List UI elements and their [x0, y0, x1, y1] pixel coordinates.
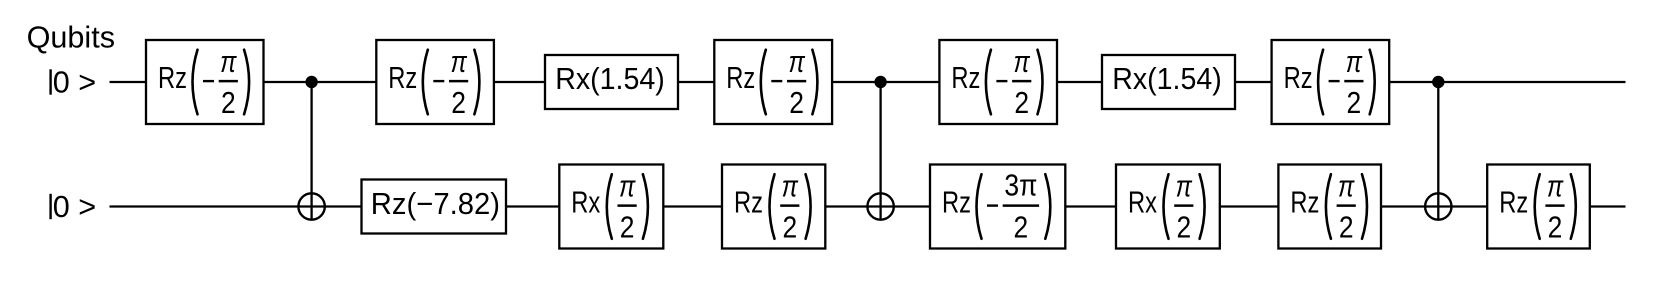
svg-text:π: π [1014, 45, 1031, 79]
svg-text:π: π [788, 45, 805, 79]
gate U4 Rz(-pi/2) [714, 40, 832, 124]
svg-text:Rz: Rz [951, 61, 980, 95]
open paren [761, 50, 766, 115]
open paren [193, 50, 198, 115]
minus sign [433, 80, 444, 82]
svg-text:Rx: Rx [1128, 186, 1157, 220]
open paren [1535, 174, 1540, 239]
fraction bar [1545, 204, 1564, 207]
open paren [986, 50, 991, 115]
gate V4 Rz(-3pi/2) [930, 165, 1065, 249]
close paren [1038, 50, 1043, 115]
gate U2 Rz(-pi/2) [376, 40, 494, 124]
fraction bar [1337, 204, 1356, 207]
svg-text:2: 2 [451, 86, 466, 120]
minus sign [987, 204, 998, 206]
control dot CX3 [1432, 76, 1444, 88]
svg-text:Qubits: Qubits [27, 20, 115, 54]
svg-text:2: 2 [1014, 86, 1029, 120]
CX2 vertical connector wire [879, 82, 881, 220]
control dot CX2 [874, 76, 886, 88]
svg-text:2: 2 [1548, 211, 1563, 245]
gate U5 Rz(-pi/2) [939, 40, 1057, 124]
svg-text:Rx: Rx [571, 186, 600, 220]
gate U1 Rz(-pi/2) [146, 40, 264, 124]
fraction bar [1174, 204, 1193, 207]
minus sign [996, 80, 1007, 82]
CX1 vertical connector wire [310, 82, 312, 220]
open paren [1318, 50, 1323, 115]
open paren [423, 50, 428, 115]
close paren [1370, 50, 1375, 115]
fraction bar [449, 80, 468, 83]
svg-text:2: 2 [1347, 86, 1362, 120]
gate V2 Rx(pi/2) [559, 165, 663, 249]
fraction bar [219, 80, 238, 83]
CNOT target CX2 [867, 193, 893, 219]
gate V1 Rz(-7.82) [362, 180, 507, 234]
svg-text:Rz: Rz [1290, 186, 1319, 220]
svg-text:2: 2 [789, 86, 804, 120]
gate U3 Rx(1.54) [545, 55, 678, 109]
close paren [643, 174, 648, 239]
svg-text:Rz(−7.82): Rz(−7.82) [371, 187, 500, 221]
minus sign [203, 80, 214, 82]
wire q0 [110, 81, 1626, 83]
close paren [474, 50, 479, 115]
gate V6 Rz(pi/2) [1278, 165, 1381, 249]
gate V3 Rz(pi/2) [722, 165, 825, 249]
fraction bar [780, 204, 799, 207]
close paren [1045, 174, 1050, 239]
svg-text:2: 2 [221, 86, 236, 120]
svg-text:Rz: Rz [1499, 186, 1528, 220]
svg-text:π: π [619, 170, 636, 204]
fraction bar [618, 204, 637, 207]
svg-text:0 >: 0 > [53, 65, 96, 99]
wire q1 [110, 205, 1626, 207]
close paren [812, 50, 817, 115]
control dot CX1 [305, 76, 317, 88]
qubit q0 ket label |0> [51, 65, 97, 99]
gate V5 Rx(pi/2) [1116, 165, 1220, 249]
svg-text:3π: 3π [1004, 169, 1037, 203]
svg-text:Rz: Rz [158, 61, 187, 95]
open paren [770, 174, 775, 239]
svg-text:2: 2 [620, 211, 635, 245]
open paren [1326, 174, 1331, 239]
CNOT target CX3 [1425, 193, 1451, 219]
minus sign [1329, 80, 1340, 82]
svg-text:π: π [1346, 45, 1363, 79]
svg-text:Rz: Rz [734, 186, 763, 220]
svg-text:π: π [220, 45, 237, 79]
CNOT target CX1 [298, 193, 324, 219]
svg-text:π: π [1176, 170, 1193, 204]
svg-text:Rz: Rz [388, 61, 417, 95]
close paren [244, 50, 249, 115]
fraction bar [1012, 80, 1031, 83]
svg-text:0 >: 0 > [53, 190, 96, 224]
open paren [607, 174, 612, 239]
fraction bar [1003, 204, 1039, 207]
svg-text:2: 2 [1339, 211, 1354, 245]
svg-text:2: 2 [1176, 211, 1191, 245]
gate U6 Rx(1.54) [1102, 55, 1235, 109]
svg-text:Rz: Rz [726, 61, 755, 95]
svg-text:π: π [782, 170, 799, 204]
close paren [1362, 174, 1367, 239]
qubit q1 ket label |0> [51, 190, 97, 224]
svg-text:Rz: Rz [1284, 61, 1313, 95]
svg-text:2: 2 [782, 211, 797, 245]
minus sign [771, 80, 782, 82]
fraction bar [787, 80, 806, 83]
close paren [806, 174, 811, 239]
gate V7 Rz(pi/2) [1487, 165, 1590, 249]
close paren [1571, 174, 1576, 239]
open paren [1164, 174, 1169, 239]
fraction bar [1344, 80, 1363, 83]
svg-text:2: 2 [1014, 211, 1029, 245]
svg-text:Rz: Rz [942, 186, 971, 220]
open paren [977, 174, 982, 239]
svg-text:Rx(1.54): Rx(1.54) [1112, 62, 1222, 96]
CX3 vertical connector wire [1437, 82, 1439, 220]
svg-text:π: π [1547, 170, 1564, 204]
gate U7 Rz(-pi/2) [1272, 40, 1390, 124]
close paren [1200, 174, 1205, 239]
svg-text:Rx(1.54): Rx(1.54) [555, 62, 665, 96]
svg-text:π: π [450, 45, 467, 79]
svg-text:π: π [1338, 170, 1355, 204]
